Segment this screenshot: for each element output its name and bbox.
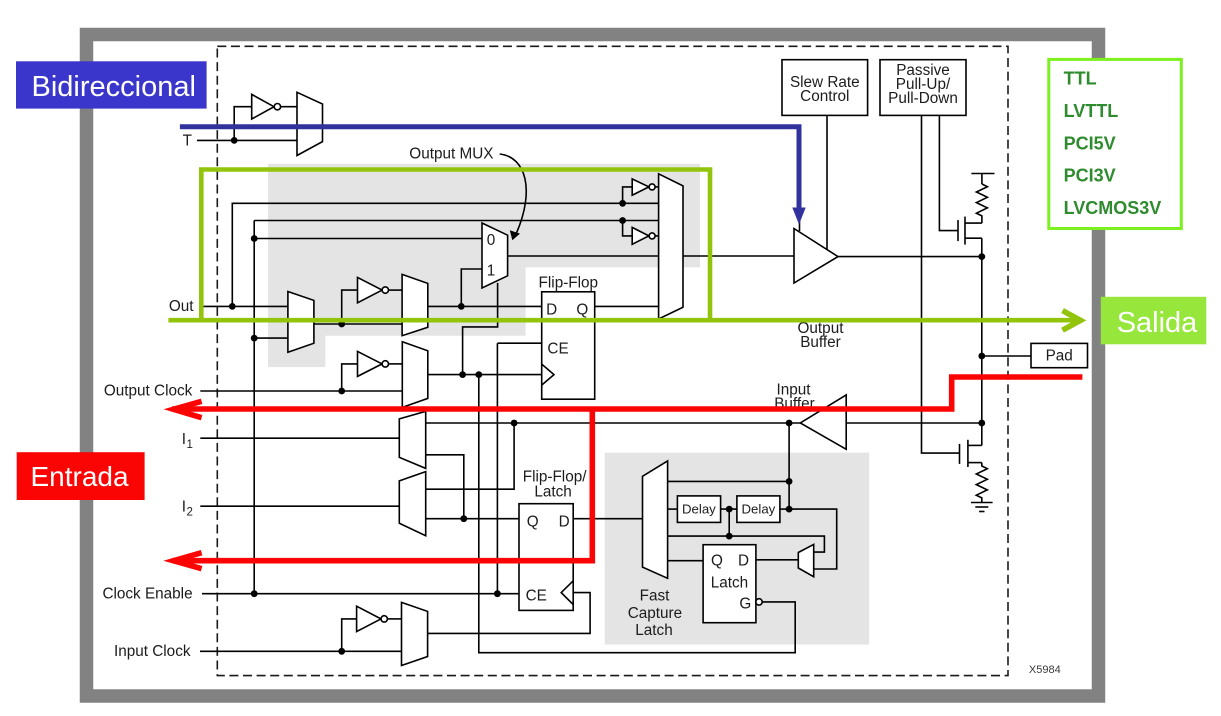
svg-text:Out: Out [169, 298, 194, 315]
svg-text:Buffer: Buffer [800, 334, 841, 351]
svg-text:Salida: Salida [1117, 307, 1198, 339]
svg-text:Output Clock: Output Clock [104, 383, 193, 400]
svg-text:Q: Q [576, 301, 588, 318]
svg-text:Fast: Fast [640, 588, 670, 605]
svg-text:1: 1 [487, 263, 496, 280]
svg-text:TTL: TTL [1064, 69, 1097, 89]
svg-text:G: G [739, 595, 751, 612]
svg-text:Output MUX: Output MUX [409, 146, 493, 163]
svg-text:CE: CE [547, 341, 568, 358]
svg-text:Flip-Flop: Flip-Flop [539, 275, 599, 292]
svg-text:Entrada: Entrada [31, 461, 129, 492]
svg-text:Bidireccional: Bidireccional [32, 71, 196, 103]
svg-text:D: D [559, 514, 570, 531]
svg-text:LVTTL: LVTTL [1064, 101, 1119, 121]
svg-text:I: I [182, 498, 186, 515]
svg-text:LVCMOS3V: LVCMOS3V [1064, 198, 1162, 218]
svg-text:Delay: Delay [682, 502, 716, 517]
svg-text:Q: Q [527, 514, 539, 531]
svg-text:0: 0 [487, 232, 496, 249]
svg-text:Pad: Pad [1046, 348, 1073, 365]
svg-text:Control: Control [800, 88, 849, 105]
svg-text:D: D [546, 301, 557, 318]
svg-text:1: 1 [187, 439, 193, 451]
svg-text:2: 2 [187, 506, 193, 518]
svg-text:Latch: Latch [534, 484, 571, 501]
svg-text:Delay: Delay [742, 502, 776, 517]
svg-text:I: I [182, 431, 186, 448]
svg-text:Clock Enable: Clock Enable [102, 586, 192, 603]
svg-text:D: D [738, 553, 749, 570]
svg-text:PCI3V: PCI3V [1064, 166, 1116, 186]
svg-text:Latch: Latch [635, 622, 672, 639]
svg-text:Q: Q [711, 553, 723, 570]
svg-text:Capture: Capture [628, 605, 682, 622]
svg-text:X5984: X5984 [1029, 664, 1061, 676]
svg-text:Input Clock: Input Clock [114, 643, 191, 660]
svg-text:Pull-Down: Pull-Down [888, 90, 958, 107]
svg-text:Latch: Latch [711, 574, 748, 591]
svg-text:CE: CE [526, 587, 547, 604]
svg-text:PCI5V: PCI5V [1064, 133, 1116, 153]
svg-text:T: T [183, 132, 192, 149]
